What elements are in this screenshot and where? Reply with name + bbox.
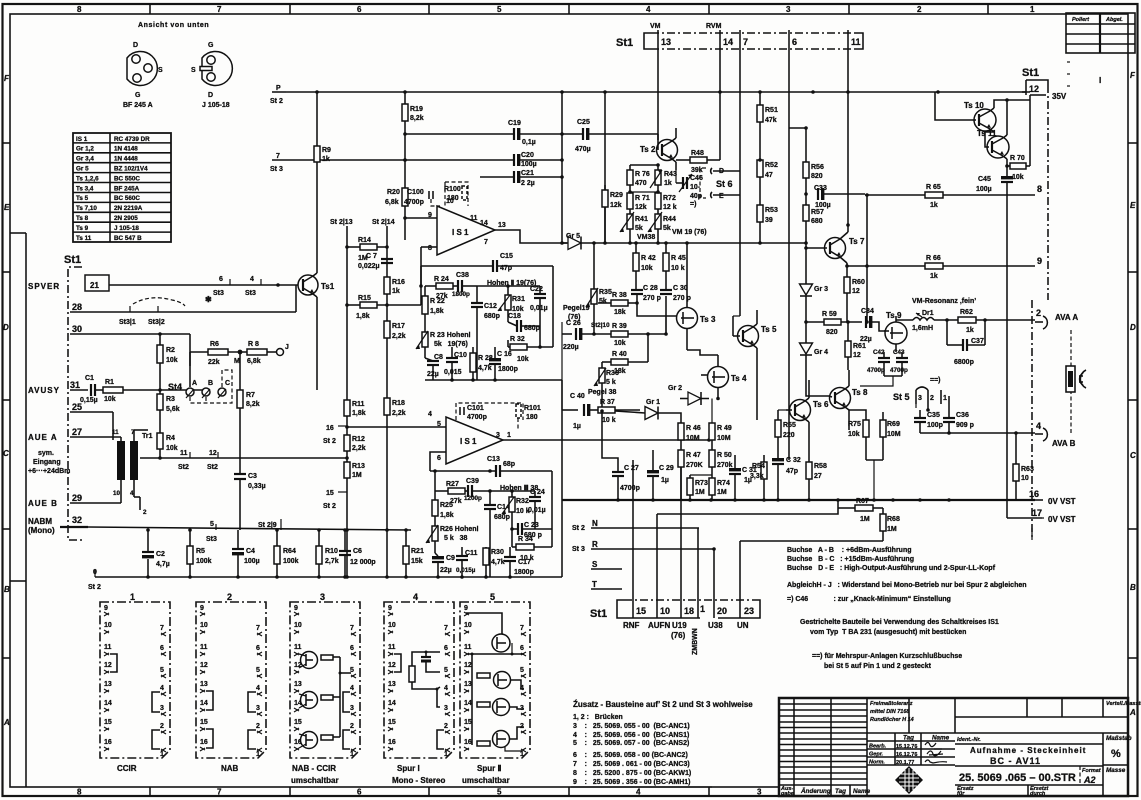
svg-text:U19: U19 <box>672 621 687 630</box>
right side <box>949 67 1086 540</box>
module 5 Spur II <box>460 592 530 785</box>
svg-text:R15: R15 <box>358 295 371 302</box>
diode Gr5 <box>560 233 808 250</box>
svg-text:R41: R41 <box>635 216 648 223</box>
svg-text:4,7k: 4,7k <box>478 365 492 372</box>
svg-text:47k: 47k <box>765 117 777 124</box>
capacitor C9 <box>432 553 455 577</box>
resistor R64 <box>274 530 299 577</box>
svg-text:R26 HohenⅠ: R26 HohenⅠ <box>440 525 479 533</box>
svg-text:16: 16 <box>326 425 334 432</box>
resistor R9 <box>314 92 331 163</box>
svg-text:G: G <box>135 92 141 99</box>
svg-text:R18: R18 <box>392 400 405 407</box>
wire to pin 4 <box>949 432 1035 434</box>
resistor R54 <box>750 455 767 500</box>
svg-text:R51: R51 <box>765 107 778 114</box>
svg-text:R56: R56 <box>811 164 824 171</box>
svg-text:R 8: R 8 <box>248 341 259 348</box>
resistor R18 <box>384 398 406 417</box>
svg-text:20.1.77: 20.1.77 <box>896 760 914 766</box>
resistor R29 <box>602 185 623 243</box>
svg-text:AUE A: AUE A <box>28 433 58 442</box>
capacitor C43 <box>860 349 908 386</box>
svg-text:1M: 1M <box>717 489 727 496</box>
svg-text:C 28: C 28 <box>643 285 658 292</box>
resistor R27 <box>435 471 468 505</box>
svg-text:R 42: R 42 <box>641 255 656 262</box>
svg-text:12: 12 <box>209 450 217 457</box>
svg-text:Vertell./Passtü.: Vertell./Passtü. <box>1106 701 1141 707</box>
transistor Ts11 <box>977 98 1009 166</box>
right cells <box>955 698 1141 797</box>
svg-text:4: 4 <box>646 5 651 14</box>
svg-text:18: 18 <box>684 606 694 616</box>
capacitor C18 <box>508 313 540 332</box>
svg-text:C 7: C 7 <box>366 253 377 260</box>
svg-text:C: C <box>3 449 9 458</box>
svg-text:13: 13 <box>661 37 671 47</box>
module 4 Spur I <box>384 592 454 785</box>
svg-text:Ts 7: Ts 7 <box>849 237 865 246</box>
transistor Ts7 <box>806 225 865 268</box>
svg-text:1µ: 1µ <box>573 423 581 430</box>
svg-text:15k: 15k <box>411 558 423 565</box>
svg-text:AUFN: AUFN <box>648 621 670 630</box>
wire pin6 <box>430 452 446 471</box>
svg-text:1k: 1k <box>392 288 400 295</box>
St4 switch <box>168 370 232 403</box>
svg-text:5: 5 <box>437 421 441 428</box>
resistor R76 <box>627 165 650 192</box>
resistor R60 <box>844 266 865 322</box>
svg-text:umschaltbar: umschaltbar <box>462 776 510 785</box>
svg-text:C22: C22 <box>530 286 543 293</box>
svg-text:2: 2 <box>1036 308 1041 318</box>
svg-text:St3: St3 <box>213 290 224 297</box>
resistor R25 <box>432 491 454 524</box>
resistor R56 <box>803 128 824 205</box>
svg-text:32: 32 <box>72 515 82 525</box>
svg-text:J: J <box>285 344 289 351</box>
svg-text:B: B <box>1130 583 1136 592</box>
svg-text:Dr1: Dr1 <box>922 310 934 317</box>
jumper 11-12 <box>110 654 117 672</box>
svg-text:2,2k: 2,2k <box>392 333 406 340</box>
svg-text:C 40: C 40 <box>570 393 585 400</box>
svg-text:Ts 4: Ts 4 <box>731 374 747 383</box>
svg-text:R 24: R 24 <box>434 276 449 283</box>
svg-text:E: E <box>1130 201 1136 210</box>
svg-text:A: A <box>1129 708 1136 717</box>
svg-text:R 65: R 65 <box>926 184 941 191</box>
resistor R42 <box>633 243 656 296</box>
pin 7 <box>739 30 741 49</box>
resistor R12 <box>344 435 366 452</box>
potentiometer R32b <box>502 491 530 529</box>
jumper 15-16 <box>206 729 213 748</box>
svg-text:R 37: R 37 <box>600 399 615 406</box>
svg-text:R 23 HohenⅠ: R 23 HohenⅠ <box>430 331 471 339</box>
svg-text:I: I <box>1099 76 1101 85</box>
svg-text:für: für <box>957 791 965 797</box>
svg-text:5: 5 <box>210 521 214 528</box>
svg-text:C46: C46 <box>690 175 703 182</box>
resistor M5R3 <box>477 741 490 746</box>
resistor R22 <box>422 286 445 330</box>
svg-text:4: 4 <box>130 490 134 497</box>
resistor R68 <box>880 508 900 541</box>
wire block top rail <box>430 470 496 472</box>
svg-text:R101: R101 <box>524 405 541 412</box>
svg-text:P: P <box>276 85 281 92</box>
potentiometer R26 <box>426 524 479 553</box>
svg-text:1: 1 <box>507 432 511 439</box>
resistor R4 <box>157 433 178 460</box>
wire row <box>468 653 524 655</box>
svg-text:R27: R27 <box>446 481 459 488</box>
svg-text:0V VST: 0V VST <box>1048 497 1076 506</box>
wire down to St4 A <box>189 334 191 387</box>
svg-text:St2|10: St2|10 <box>591 322 610 329</box>
capacitor C42 <box>867 349 890 376</box>
transistor Q5b <box>494 672 511 689</box>
svg-text:Aufnahme - Steckeinheit: Aufnahme - Steckeinheit <box>970 746 1086 755</box>
svg-text:St 2|9: St 2|9 <box>258 522 277 529</box>
svg-text:1: 1 <box>943 395 947 402</box>
resistor R51 <box>757 92 778 160</box>
svg-text:Ts 2: Ts 2 <box>640 145 656 154</box>
resistor R62 <box>958 309 1035 334</box>
svg-text:10k: 10k <box>641 265 653 272</box>
node M <box>238 350 243 355</box>
svg-text:St 2: St 2 <box>88 584 101 591</box>
svg-text:R 66: R 66 <box>926 255 941 262</box>
svg-text:4700p: 4700p <box>867 367 885 374</box>
wire block bottom rail <box>425 379 562 381</box>
svg-text:10k: 10k <box>848 431 860 438</box>
svg-text:St 2|14: St 2|14 <box>372 219 395 226</box>
dashed jumper arc <box>133 298 185 306</box>
resistor R52 <box>757 160 778 205</box>
svg-text:10: 10 <box>660 606 670 616</box>
svg-text:10k: 10k <box>104 396 116 403</box>
svg-text:R 34: R 34 <box>518 536 533 543</box>
svg-text:9 : 25. 5069 . 356 - 00 (: 9 : 25. 5069 . 356 - 00 (BC-AMH1) <box>573 779 691 786</box>
svg-text:25: 25 <box>72 402 82 412</box>
resistor R40 <box>602 332 650 375</box>
svg-text:10: 10 <box>113 490 121 497</box>
svg-text:8,2k: 8,2k <box>410 115 424 122</box>
svg-text:3: 3 <box>757 788 762 797</box>
svg-text:22k: 22k <box>208 359 220 366</box>
transistor Q3a <box>301 652 318 669</box>
resistor M5R1 <box>477 673 490 678</box>
resistor R101 (dashed) <box>516 404 541 430</box>
capacitor C37 <box>947 318 987 366</box>
svg-text:R 45: R 45 <box>671 255 686 262</box>
svg-text:1,8k: 1,8k <box>356 313 370 320</box>
left inner double line <box>25 233 27 787</box>
transistor Q5a <box>492 634 510 652</box>
svg-text:10 k: 10 k <box>671 265 685 272</box>
svg-text:Ts 3: Ts 3 <box>700 315 716 324</box>
potentiometer R43 <box>650 165 677 192</box>
resistor R49 <box>709 399 732 451</box>
svg-text:Spur I: Spur I <box>397 764 420 773</box>
svg-text:10M: 10M <box>717 435 731 442</box>
svg-text:R 22: R 22 <box>430 298 445 305</box>
resistor R5 <box>187 530 212 577</box>
svg-text:==): ==) <box>930 377 941 384</box>
wire C19 row <box>405 133 514 135</box>
resistor R11 <box>344 400 366 417</box>
svg-text:R 70: R 70 <box>1010 155 1025 162</box>
svg-text:gabe: gabe <box>780 791 794 797</box>
svg-text:1M: 1M <box>860 516 870 523</box>
resistor R21 <box>403 528 424 579</box>
svg-text:AbgleichH - J : Widerstand b: AbgleichH - J : Widerstand bei Mono-Betr… <box>787 582 1027 589</box>
resistor R45 <box>663 243 686 290</box>
svg-text:St 3: St 3 <box>270 166 283 173</box>
module 1 CCIR <box>100 592 170 773</box>
modules <box>100 592 530 785</box>
svg-text:BC - AV11: BC - AV11 <box>990 756 1041 766</box>
svg-text:R7: R7 <box>246 392 255 399</box>
svg-text:Ts 3,4: Ts 3,4 <box>76 186 94 193</box>
capacitor C1 <box>80 375 103 404</box>
svg-text:T: T <box>592 580 597 589</box>
transistor Ts1 <box>298 162 335 390</box>
svg-text:St1: St1 <box>1022 67 1039 79</box>
svg-text:21: 21 <box>90 281 99 290</box>
svg-text:2,7k: 2,7k <box>325 558 339 565</box>
svg-text:28: 28 <box>72 302 82 312</box>
resistor R66 <box>847 255 1035 280</box>
svg-text:C 23: C 23 <box>524 522 539 529</box>
wire top <box>412 652 440 666</box>
wire R59 row <box>806 321 862 323</box>
svg-text:4: 4 <box>428 411 432 418</box>
resistor R3 <box>157 390 180 433</box>
svg-text:Mono - Stereo: Mono - Stereo <box>392 776 445 785</box>
svg-text:C38: C38 <box>456 272 469 279</box>
svg-text:8: 8 <box>77 5 82 14</box>
svg-text:17: 17 <box>1032 508 1042 518</box>
svg-text:R 47: R 47 <box>686 452 701 459</box>
title block <box>779 698 1141 797</box>
svg-text:15: 15 <box>326 490 334 497</box>
svg-text:1N 4148: 1N 4148 <box>114 146 138 153</box>
resistor M3R3 <box>321 735 333 740</box>
capacitor C12 <box>471 286 500 380</box>
svg-text:C100: C100 <box>407 189 424 196</box>
svg-text:3: 3 <box>496 432 500 439</box>
svg-text:VM-Resonanz ‚fein’: VM-Resonanz ‚fein’ <box>912 298 976 305</box>
svg-text:680p: 680p <box>484 313 500 320</box>
pin 18 <box>680 592 682 618</box>
resistor R63 <box>1013 464 1034 482</box>
svg-text:15.12.76: 15.12.76 <box>896 744 917 750</box>
pin 10 <box>656 592 658 618</box>
svg-text:R1: R1 <box>105 379 114 386</box>
svg-text:5: 5 <box>490 592 495 602</box>
svg-text:10k: 10k <box>166 445 178 452</box>
pin 6 <box>788 30 790 49</box>
svg-text:0,022µ: 0,022µ <box>358 263 380 270</box>
svg-text:470: 470 <box>635 180 647 187</box>
svg-text:(Mono): (Mono) <box>28 526 55 535</box>
svg-text:10M: 10M <box>686 435 700 442</box>
svg-text:30: 30 <box>72 324 82 334</box>
svg-text:U38: U38 <box>708 621 723 630</box>
speaker <box>1066 330 1086 433</box>
svg-text:0,01µ: 0,01µ <box>530 305 548 312</box>
resistor R19 <box>402 92 424 188</box>
svg-text:Ident.-Nr.: Ident.-Nr. <box>957 737 981 743</box>
svg-text:R32: R32 <box>516 498 529 505</box>
svg-text:47: 47 <box>765 172 773 179</box>
svg-text:A: A <box>192 380 197 387</box>
capacitor C21 <box>480 170 562 187</box>
svg-text:1: 1 <box>1030 5 1035 14</box>
potentiometer R31 <box>498 286 525 322</box>
svg-text:C21: C21 <box>521 170 534 177</box>
svg-text:8: 8 <box>77 788 82 797</box>
resistor R1 <box>103 379 205 403</box>
svg-text:C101: C101 <box>467 405 484 412</box>
resistor R16 <box>384 277 405 295</box>
svg-text:18k: 18k <box>614 309 626 316</box>
svg-text:Name: Name <box>932 735 950 742</box>
parts table <box>73 133 171 242</box>
svg-text:C42: C42 <box>873 349 885 356</box>
svg-text:C25: C25 <box>577 119 590 126</box>
resistor R6 <box>190 341 247 366</box>
jumper 11-12 <box>394 654 401 672</box>
capacitor C15 <box>493 253 553 330</box>
pin 23 <box>739 592 741 618</box>
connector St1 left bracket <box>68 267 82 540</box>
svg-text:100p: 100p <box>927 422 943 429</box>
svg-text:Buchse D - E : High-Output: Buchse D - E : High-Output-Ausführung un… <box>787 565 996 572</box>
svg-text:N: N <box>592 519 598 528</box>
svg-text:mittel DIN 7168: mittel DIN 7168 <box>870 709 910 715</box>
svg-text:22µ: 22µ <box>860 336 872 343</box>
svg-text:6: 6 <box>437 455 441 462</box>
resistor R7 <box>237 352 260 474</box>
svg-text:CCIR: CCIR <box>117 764 137 773</box>
svg-text:1800p: 1800p <box>452 291 470 298</box>
svg-text:durch: durch <box>1030 791 1046 797</box>
svg-text:1k: 1k <box>322 156 330 163</box>
svg-text:220µ: 220µ <box>563 344 579 351</box>
capacitor C20 <box>514 152 562 168</box>
svg-text:11: 11 <box>470 215 478 222</box>
pin 21 box <box>85 275 109 291</box>
svg-text:6: 6 <box>792 37 797 47</box>
resistor R61 <box>845 322 866 370</box>
transistor Ts8 <box>829 370 868 430</box>
pin 11 <box>847 30 849 49</box>
capacitor C100 (dashed) <box>404 189 440 206</box>
transistor Ts6 <box>778 380 829 440</box>
svg-text:Ts 10: Ts 10 <box>964 101 984 110</box>
svg-text:Tag: Tag <box>835 788 846 795</box>
capacitor C2 <box>142 530 170 577</box>
svg-text:R53: R53 <box>765 207 778 214</box>
svg-text:R54: R54 <box>752 463 765 470</box>
svg-text:R48: R48 <box>691 150 704 157</box>
svg-text:R 46: R 46 <box>686 425 701 432</box>
capacitor M4C1 <box>421 652 440 672</box>
capacitor C13 <box>487 456 552 547</box>
svg-text:NAB - CCIR: NAB - CCIR <box>292 764 336 773</box>
svg-text:Ts 9: Ts 9 <box>886 311 902 320</box>
svg-text:Źusatz - Bausteine auf’ St 2 u: Źusatz - Bausteine auf’ St 2 und St 3 wo… <box>573 700 753 709</box>
resistor R20 <box>385 188 408 240</box>
svg-text:Ts 9: Ts 9 <box>76 225 89 232</box>
potentiometer R36 <box>588 362 619 410</box>
svg-text:8 : 25. 5200 . 875 - 00 (: 8 : 25. 5200 . 875 - 00 (BC-AKW1) <box>573 770 691 777</box>
svg-text:16: 16 <box>1029 489 1039 499</box>
svg-text:St2: St2 <box>207 464 218 471</box>
svg-text:A: A <box>3 718 10 727</box>
svg-text:1M: 1M <box>352 472 362 479</box>
capacitor C23 <box>512 522 552 539</box>
svg-text:%: % <box>1111 748 1121 760</box>
pin 16 <box>1016 481 1076 506</box>
svg-text:1800p: 1800p <box>514 569 534 576</box>
capacitor C38 <box>452 272 477 298</box>
resistor R75 <box>848 410 869 460</box>
resistor R8 <box>247 341 276 365</box>
svg-text:25. 5069 .065 – 00.STR: 25. 5069 .065 – 00.STR <box>959 772 1076 784</box>
resistor R55 <box>775 410 796 449</box>
svg-text:C45: C45 <box>978 176 991 183</box>
svg-text:2,2k: 2,2k <box>392 410 406 417</box>
svg-text:C37: C37 <box>971 338 984 345</box>
svg-text:1k: 1k <box>930 273 938 280</box>
svg-text:J 105-18: J 105-18 <box>114 225 139 232</box>
svg-text:SPVER: SPVER <box>28 282 60 291</box>
svg-text:10k: 10k <box>1012 174 1024 181</box>
svg-text:7: 7 <box>743 37 748 47</box>
wire common <box>339 657 341 737</box>
svg-text:R4: R4 <box>166 435 175 442</box>
svg-text:8,2k: 8,2k <box>246 401 260 408</box>
jumper 4-3 <box>248 692 256 712</box>
svg-text:RNF: RNF <box>623 621 640 630</box>
svg-text:St3|1: St3|1 <box>119 319 136 326</box>
resistor M5R2 <box>477 702 490 707</box>
diode Gr4 <box>800 322 830 396</box>
svg-text:4,7k: 4,7k <box>491 559 505 566</box>
connector St6 <box>700 168 740 200</box>
svg-text:S: S <box>158 67 163 74</box>
svg-text:St 2: St 2 <box>323 503 336 510</box>
svg-text:47p: 47p <box>786 468 798 475</box>
svg-text:2: 2 <box>227 592 232 602</box>
svg-text:B: B <box>208 380 213 387</box>
resistor M4R1 <box>409 666 415 682</box>
svg-text:4700p: 4700p <box>620 485 640 492</box>
transistor Ts10 <box>935 92 1030 132</box>
svg-text:R 50: R 50 <box>717 452 732 459</box>
svg-text:Änderung: Änderung <box>800 787 831 795</box>
svg-text:5 k 38: 5 k 38 <box>444 535 467 542</box>
svg-text:820: 820 <box>826 329 838 336</box>
